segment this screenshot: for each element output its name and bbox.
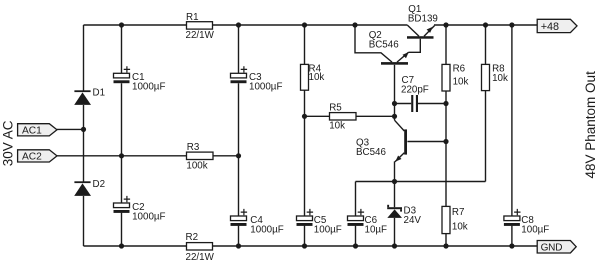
- node AC1 left column: [81, 127, 86, 132]
- label C2 value 1000uF: [132, 202, 165, 223]
- capacitor C1: [114, 66, 131, 83]
- node top rail R8: [483, 22, 488, 27]
- svg-text:R7: R7: [452, 207, 465, 218]
- svg-text:R1: R1: [186, 12, 199, 23]
- resistor R5: [330, 113, 357, 120]
- wire bottom rail right segment to GND: [213, 245, 538, 247]
- label R8 value 10k: [492, 64, 508, 85]
- resistor R1: [187, 22, 213, 29]
- node bottom rail C2: [119, 243, 124, 248]
- resistor R8: [482, 64, 490, 90]
- label R4 value 10k: [309, 64, 325, 84]
- svg-text:R6: R6: [453, 64, 466, 75]
- resistor R3: [187, 152, 214, 159]
- wire R5 right lead: [356, 115, 395, 117]
- node top rail C3: [236, 22, 241, 27]
- label Q3 value BC546: [356, 137, 387, 158]
- svg-text:BC546: BC546: [356, 147, 387, 158]
- capacitor C3: [231, 66, 248, 83]
- connector tag GND: [537, 241, 576, 254]
- wire D3 column: [394, 182, 396, 247]
- svg-text:R2: R2: [186, 232, 199, 243]
- wire Q3 emitter diagonal: [395, 153, 404, 162]
- label C7 value 220pF: [401, 75, 429, 96]
- svg-text:R5: R5: [329, 103, 342, 114]
- label R2 value 22/1W: [186, 232, 215, 262]
- label Q1 value BD139: [408, 4, 438, 25]
- wire Q3 collector diagonal: [395, 120, 405, 131]
- svg-text:BC546: BC546: [369, 40, 400, 51]
- svg-text:100µF: 100µF: [314, 225, 342, 236]
- resistor R6: [442, 64, 450, 91]
- node R5 Q3 collector: [392, 114, 397, 119]
- wire Q3 base to R6 R7 column: [407, 141, 446, 143]
- resistor R7: [442, 206, 450, 233]
- node top rail C1: [119, 22, 124, 27]
- svg-text:D1: D1: [93, 88, 106, 99]
- transistor Q2 emitter arrow: [403, 52, 409, 58]
- resistor R4: [301, 64, 309, 90]
- capacitor C6: [348, 209, 365, 226]
- svg-text:BD139: BD139: [408, 13, 438, 24]
- wire feedback row y181 C6 to R8: [356, 181, 486, 183]
- label C3 value 1000uF: [249, 72, 282, 93]
- svg-text:1000µF: 1000µF: [249, 82, 282, 93]
- node Q3 emitter D3: [392, 179, 397, 184]
- transistor Q2 base bar: [381, 62, 408, 65]
- connector tag AC1: [18, 124, 57, 137]
- label C4 value 1000uF: [250, 215, 283, 236]
- svg-text:22/1W: 22/1W: [186, 30, 215, 41]
- node Q3 base R6 R7: [443, 139, 448, 144]
- label D1: [93, 88, 106, 99]
- svg-text:220pF: 220pF: [401, 85, 429, 96]
- svg-text:10k: 10k: [329, 121, 345, 132]
- wire Q1 emitter diagonal: [424, 26, 435, 37]
- svg-text:1000µF: 1000µF: [132, 82, 165, 93]
- wire R3 to C3 column: [213, 155, 239, 157]
- wire C6 column: [355, 182, 357, 247]
- connector tag AC2: [18, 150, 57, 163]
- svg-text:1000µF: 1000µF: [132, 212, 165, 223]
- wire Q2 collector path from top rail: [355, 25, 392, 62]
- svg-text:10k: 10k: [452, 221, 468, 232]
- svg-text:24V: 24V: [404, 215, 422, 226]
- svg-text:48V Phantom Out: 48V Phantom Out: [583, 71, 598, 179]
- node bottom rail D3: [392, 243, 397, 248]
- svg-text:30V AC: 30V AC: [0, 120, 15, 166]
- diode D1: [74, 90, 91, 105]
- wire top rail right segment to +48: [434, 24, 538, 26]
- wire R6 R7 column: [445, 25, 447, 246]
- svg-text:D2: D2: [93, 179, 106, 190]
- capacitor C7: [411, 95, 418, 112]
- wire C8 column: [511, 25, 513, 246]
- transistor Q3 base bar: [404, 129, 407, 154]
- label C8 value 100uF: [521, 215, 549, 236]
- node top rail C8: [509, 22, 514, 27]
- node C7 left Q2 base: [392, 101, 397, 106]
- wire left column middle: [83, 105, 85, 182]
- node bottom rail C4: [236, 243, 241, 248]
- node bottom rail C5: [302, 243, 307, 248]
- svg-text:AC1: AC1: [22, 126, 42, 137]
- node top rail R4: [302, 22, 307, 27]
- node bottom rail R7: [443, 243, 448, 248]
- label R3 value 100k: [186, 142, 207, 172]
- wire R5 left lead: [305, 115, 330, 117]
- wire Q2 base down to C7 node: [394, 65, 396, 104]
- capacitor C8: [504, 209, 521, 226]
- svg-text:10k: 10k: [453, 76, 469, 87]
- transistor Q1 base bar: [407, 36, 434, 39]
- svg-text:22/1W: 22/1W: [186, 252, 215, 262]
- wire bottom rail left segment: [84, 245, 187, 247]
- wire R8 column: [485, 25, 487, 182]
- node bottom rail C6: [353, 243, 358, 248]
- label 30V AC input: [0, 120, 15, 166]
- svg-text:+48: +48: [541, 21, 559, 33]
- transistor Q3 emitter arrow: [395, 156, 401, 162]
- wire top rail middle segment: [213, 24, 408, 26]
- capacitor C2: [114, 196, 131, 213]
- resistor R2: [187, 243, 213, 250]
- svg-text:10k: 10k: [309, 72, 325, 83]
- transistor Q1 emitter arrow: [427, 27, 433, 33]
- svg-text:R3: R3: [187, 142, 200, 153]
- svg-text:1000µF: 1000µF: [250, 225, 283, 236]
- wire C1 C2 column: [121, 25, 123, 246]
- wire Q1 collector diagonal: [408, 25, 420, 36]
- connector tag +48: [537, 19, 577, 33]
- label Q2 value BC546: [369, 30, 400, 51]
- wire left column upper: [83, 25, 85, 91]
- label R1 value 22/1W: [186, 12, 215, 41]
- node top rail Q2 collector: [352, 22, 357, 27]
- label R5 value 10k: [329, 103, 345, 132]
- node R4 R5 junction: [302, 114, 307, 119]
- svg-text:10k: 10k: [492, 73, 508, 84]
- wire AC2 row to R3: [57, 155, 187, 157]
- label C5 value 100uF: [314, 215, 342, 236]
- node AC2 C1 C2 junction: [119, 153, 124, 158]
- label D2: [93, 179, 106, 190]
- wire C7 left lead: [395, 103, 412, 105]
- wire Q2 emitter diagonal: [397, 52, 409, 62]
- node bottom rail C8: [509, 243, 514, 248]
- capacitor C4: [231, 209, 248, 226]
- node R3 C3 C4 junction: [236, 153, 241, 158]
- node C7 right R6: [443, 101, 448, 106]
- label R6 value 10k: [453, 64, 469, 88]
- wire R4 C5 column: [304, 25, 306, 246]
- diode D2: [74, 181, 91, 196]
- svg-text:10µF: 10µF: [365, 225, 388, 236]
- label 48V Phantom Out output: [583, 71, 598, 179]
- svg-text:100k: 100k: [186, 161, 207, 172]
- svg-text:AC2: AC2: [22, 152, 42, 163]
- wire Q1 base path from Q2 emitter: [409, 39, 421, 53]
- wire C3 C4 column: [238, 25, 240, 246]
- wire C7 right lead: [418, 103, 446, 105]
- capacitor C5: [297, 209, 314, 226]
- wire top rail left segment: [84, 24, 187, 26]
- wire Q3 emitter down to node: [394, 161, 396, 181]
- wire AC1 to left column: [57, 128, 84, 130]
- svg-text:GND: GND: [541, 242, 563, 253]
- wire left column lower: [83, 196, 85, 246]
- node top rail R6: [443, 22, 448, 27]
- svg-text:100µF: 100µF: [521, 225, 549, 236]
- label R7 value 10k: [452, 207, 468, 232]
- wire node C7 down to Q3 collector: [394, 104, 396, 121]
- label C6 value 10uF: [365, 215, 388, 236]
- zener diode D3: [387, 205, 402, 218]
- label C1 value 1000uF: [132, 72, 165, 93]
- label D3 value 24V: [404, 206, 422, 226]
